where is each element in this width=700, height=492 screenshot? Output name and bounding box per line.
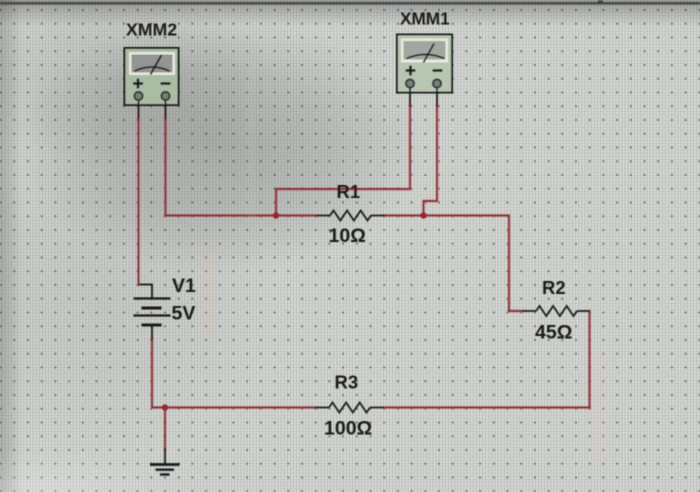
node B junction dot [420, 212, 426, 218]
XMM2 pin 1 [134, 92, 142, 100]
XMM1 minus terminal label [433, 69, 443, 72]
XMM2 pin stubs [138, 96, 140, 119]
R3 left lead [315, 407, 329, 409]
XMM1 pin 2 [433, 79, 441, 87]
R2 zigzag [536, 306, 577, 316]
XMM1 pin stubs [409, 84, 411, 108]
V1 plate long top [134, 297, 171, 299]
V1 bottom lead [151, 325, 153, 340]
XMM1 display [404, 41, 446, 60]
XMM2 scale arc [135, 67, 170, 71]
R2 right lead [577, 310, 590, 312]
R1 left lead [316, 215, 330, 217]
V1 plate short [142, 307, 162, 310]
XMM2 needle [151, 55, 162, 75]
node A junction dot [273, 212, 279, 218]
XMM2 plus terminal label [133, 79, 143, 89]
node C junction dot (ground tee) [162, 404, 168, 410]
XMM2 body [125, 48, 179, 105]
wire halo [139, 105, 590, 450]
ground bar 2 [156, 469, 175, 471]
faint moire tints [62, 60, 606, 464]
ground bar 3 [160, 473, 170, 475]
wires core [139, 105, 590, 450]
XMM2 minus terminal label [161, 82, 171, 85]
XMM2 pin 2 [161, 92, 169, 100]
XMM2 display frame [129, 52, 175, 75]
XMM2 display [132, 55, 173, 73]
R1 right lead [371, 215, 385, 217]
top bezel line [0, 2, 700, 5]
R3 zigzag [329, 403, 370, 413]
V1 plate long [134, 314, 171, 316]
XMM1 display frame [401, 39, 448, 63]
XMM1 body [397, 35, 452, 93]
XMM1 scale arc [407, 55, 445, 59]
ground stem [164, 448, 166, 464]
ground bar 1 [150, 463, 180, 466]
R2 left lead [522, 310, 536, 312]
XMM1 plus terminal label [406, 66, 416, 76]
photo lighting: dark blob upper-left [13, 17, 423, 273]
R1 zigzag [330, 211, 371, 221]
XMM1 pin 1 [406, 79, 414, 87]
V1 top lead jog [139, 285, 153, 299]
V1 plate short bottom [142, 324, 162, 327]
XMM1 needle [424, 44, 435, 63]
R3 right lead [370, 407, 384, 409]
